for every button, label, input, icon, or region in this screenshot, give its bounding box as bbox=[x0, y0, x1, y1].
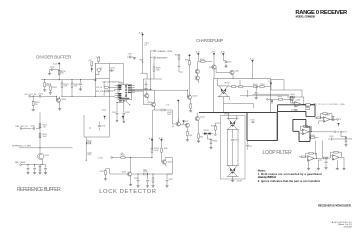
transistor Q5117 bbox=[195, 69, 199, 73]
svg-text:VHL_SD: VHL_SD bbox=[96, 87, 103, 89]
svg-text:R5115: R5115 bbox=[164, 148, 168, 150]
resistor R5133 under Q5113 bbox=[198, 126, 200, 133]
svg-text:1uF: 1uF bbox=[144, 44, 147, 46]
svg-text:DIVIDER BUFFER: DIVIDER BUFFER bbox=[36, 54, 71, 59]
svg-text:Y2: Y2 bbox=[100, 68, 102, 70]
op-amp U5403-A bbox=[308, 156, 315, 162]
svg-text:Notes:: Notes: bbox=[258, 168, 266, 172]
transistor Q5112 bbox=[185, 123, 189, 127]
resistor R5111 bbox=[190, 104, 192, 108]
svg-text:RECEIVER SYNTHESIZER: RECEIVER SYNTHESIZER bbox=[318, 204, 351, 208]
capacitor C5131 bbox=[232, 129, 234, 138]
svg-text:100K: 100K bbox=[156, 70, 160, 72]
resistor R5120 bbox=[201, 61, 205, 63]
svg-text:GD: GD bbox=[125, 96, 127, 98]
resistor R5100 bbox=[58, 70, 60, 74]
svg-text:2/1/2004: 2/1/2004 bbox=[344, 226, 353, 228]
svg-text:C5108: C5108 bbox=[125, 112, 130, 114]
svg-text:CE: CE bbox=[125, 94, 127, 96]
svg-text:B_5V: B_5V bbox=[250, 58, 254, 60]
svg-text:R5117: R5117 bbox=[100, 171, 104, 173]
ground under R5111 bbox=[189, 110, 192, 112]
wire Q5104 collector bbox=[154, 90, 156, 103]
svg-text:R5134: R5134 bbox=[167, 112, 172, 114]
svg-text:C5130: C5130 bbox=[250, 119, 255, 121]
resistor R5122 bbox=[260, 86, 264, 88]
loop filter inner box bbox=[247, 113, 277, 141]
ground under C5163 bbox=[44, 172, 47, 174]
svg-text:R33: R33 bbox=[200, 136, 203, 138]
wire bridge0 rails bbox=[218, 79, 230, 104]
wire A_9V down bbox=[141, 37, 163, 90]
svg-text:C5131: C5131 bbox=[234, 139, 239, 141]
wire buffered 2.1 MHz bbox=[19, 147, 73, 149]
resistor R5107 osc pullup bbox=[98, 57, 100, 61]
wire chargepump output lines bbox=[240, 94, 289, 96]
wire U5403 ground stubs bbox=[309, 157, 344, 168]
transistor Q5103 bbox=[162, 160, 166, 164]
wire Q5103 collector bbox=[165, 158, 172, 166]
wire loop filter column 2 bbox=[322, 140, 324, 158]
ground loop filter 1 bbox=[307, 168, 310, 170]
capacitor C5106 decoupling bbox=[117, 102, 124, 104]
pin stubs left U5400 bbox=[115, 86, 118, 98]
resistor R5160 bbox=[39, 124, 41, 128]
wire U5403B output bbox=[339, 156, 344, 158]
capacitor C5121 bbox=[255, 91, 258, 94]
svg-text:TP: TP bbox=[339, 119, 341, 121]
op-amp U5400 PLL IC body bbox=[118, 84, 131, 99]
capacitor C5162 bbox=[33, 167, 36, 170]
resistor R5148 on guard bbox=[306, 104, 310, 107]
flag CHANNEL_PRES bbox=[150, 50, 156, 52]
capacitor C5103 bbox=[109, 70, 114, 72]
transistor Q5100 bbox=[56, 98, 60, 102]
diode quad CR5111 bbox=[227, 119, 239, 130]
ground under C5106 bbox=[116, 119, 118, 122]
ground under C5116 bbox=[146, 186, 149, 188]
wire Q5103 base bbox=[161, 159, 164, 162]
transistor Q5104 bbox=[151, 103, 155, 107]
wire bridge column right bbox=[237, 129, 239, 165]
resistor R5144 bbox=[332, 116, 334, 120]
power arrow A_5V chargepump left bbox=[197, 53, 199, 56]
capacitor C5163 bbox=[44, 167, 47, 170]
transistor Q5113 bbox=[195, 117, 199, 121]
resistor R5117 bbox=[105, 170, 107, 174]
ground under R5117 bbox=[104, 179, 107, 181]
capacitor C5150 bbox=[325, 161, 328, 164]
capacitor C5160 bbox=[32, 127, 35, 130]
wire U5402A inputs bbox=[299, 132, 303, 134]
wire U5401 output bbox=[301, 103, 315, 105]
transistor Q5116 bbox=[290, 97, 294, 101]
power arrows under IC bbox=[104, 116, 106, 119]
svg-text:U5401: U5401 bbox=[296, 100, 301, 102]
resistor R5108 IC left upper bbox=[104, 87, 108, 89]
resistor R5121 bbox=[253, 86, 257, 88]
wire x86 column bbox=[85, 137, 87, 160]
shield wall bottom bbox=[84, 115, 109, 137]
svg-text:CR5110: CR5110 bbox=[224, 82, 230, 84]
wire Q5111 emitter into box bbox=[232, 75, 234, 79]
power arrow A_9V chargepump mid bbox=[213, 53, 215, 56]
transistor Q5106 bbox=[145, 94, 149, 98]
svg-text:Q8: Q8 bbox=[172, 126, 174, 128]
resistor R5141 feedback bbox=[290, 96, 294, 98]
capacitor C5120 bbox=[225, 61, 228, 64]
svg-text:TO VCO CONTROL LINE: TO VCO CONTROL LINE bbox=[318, 104, 346, 106]
resistor R5113 bbox=[121, 157, 125, 159]
power at input bbox=[271, 101, 273, 104]
capacitor C5105 rail bypass bbox=[80, 80, 82, 84]
guardband thick inner loop bbox=[293, 119, 310, 141]
svg-text:R5140: R5140 bbox=[278, 96, 283, 98]
svg-text:100p: 100p bbox=[87, 154, 91, 156]
svg-text:B_9V: B_9V bbox=[268, 81, 272, 83]
ground under R5102 bbox=[49, 93, 52, 95]
ground under R5105 bbox=[32, 109, 35, 111]
svg-text:R5132: R5132 bbox=[213, 140, 218, 142]
terminal REF_LEVEL bbox=[20, 164, 22, 166]
resistor R5118 bbox=[152, 178, 154, 182]
capacitor C5111 bbox=[98, 125, 101, 128]
resistor R5162 bbox=[39, 166, 41, 170]
ground under R5118 bbox=[151, 186, 154, 188]
svg-text:Q5100: Q5100 bbox=[61, 99, 66, 101]
wire R5107 to crystal can bbox=[98, 62, 100, 64]
svg-text:LOOP FILTER: LOOP FILTER bbox=[263, 150, 293, 156]
resistor R5110 bbox=[189, 61, 191, 65]
shield wall right of lock section bbox=[108, 79, 110, 138]
svg-text:C5101: C5101 bbox=[38, 94, 43, 96]
wire U5402B inputs bbox=[319, 121, 324, 124]
capacitor C5140 bbox=[295, 108, 298, 111]
svg-text:MODEL CRM9228: MODEL CRM9228 bbox=[296, 15, 316, 19]
capacitor C5161 bbox=[27, 167, 30, 170]
svg-text:CHANNEL_PRES: CHANNEL_PRES bbox=[157, 50, 173, 53]
svg-text:C5117: C5117 bbox=[169, 179, 173, 181]
resistor R5150 feedback bbox=[309, 152, 313, 154]
wire U5400 top pin bbox=[123, 83, 127, 84]
svg-text:10.0K: 10.0K bbox=[43, 136, 47, 138]
svg-text:R5122: R5122 bbox=[260, 84, 265, 86]
wire divider input bbox=[30, 95, 56, 97]
svg-text:I_5V: I_5V bbox=[87, 60, 91, 62]
ground under C5162 bbox=[33, 172, 36, 174]
svg-text:R5110: R5110 bbox=[185, 59, 190, 61]
wire diode pair tap bbox=[206, 135, 208, 139]
wire Q5102 emitter ground bbox=[130, 176, 132, 184]
capacitor C5102 bbox=[91, 62, 93, 66]
wire divider output to IC bbox=[62, 95, 115, 97]
svg-text:REFERENCE BUFFER: REFERENCE BUFFER bbox=[17, 187, 61, 193]
resistor R5146 row bbox=[311, 137, 315, 139]
pin name blocks U5400 bbox=[118, 84, 121, 87]
resistor R5102 bbox=[49, 84, 51, 93]
svg-text:C5120: C5120 bbox=[227, 62, 232, 64]
power near U5402B bbox=[338, 123, 340, 126]
svg-text:C5100: C5100 bbox=[50, 66, 55, 68]
wire Q5100 base bbox=[55, 96, 57, 100]
ground under C5115 bbox=[136, 186, 139, 188]
flag TO VCO CONTROL LINE bbox=[313, 103, 316, 105]
node divider rail junctions bbox=[59, 79, 60, 80]
terminal left of bridge bbox=[215, 134, 217, 136]
resistor R5115 bbox=[161, 148, 163, 152]
svg-text:C5115: C5115 bbox=[134, 178, 138, 180]
wire right cluster bbox=[335, 132, 346, 139]
wire U5402A output bbox=[309, 131, 334, 133]
svg-text:R5147: R5147 bbox=[348, 138, 353, 140]
svg-text:REF_LEVEL: REF_LEVEL bbox=[15, 162, 26, 164]
resistor R5119 bbox=[178, 55, 180, 59]
wire Q5101 emitter bbox=[40, 159, 42, 165]
resistor R5125 on bus bbox=[153, 67, 155, 71]
bus U5400 to right bbox=[131, 89, 187, 96]
wire lock detector feed upper bbox=[153, 110, 155, 130]
svg-text:PD: PD bbox=[125, 85, 127, 87]
flag BANDSHIFT bbox=[150, 57, 156, 59]
svg-text:R5120: R5120 bbox=[200, 59, 205, 61]
resistor R5124 bbox=[239, 86, 243, 88]
svg-text:LOCK: LOCK bbox=[98, 157, 104, 159]
resistor R5149 input bbox=[317, 117, 321, 119]
resistor R5116 bbox=[144, 173, 148, 175]
power A_5V lock detector 1 bbox=[151, 139, 153, 142]
svg-text:1.0K: 1.0K bbox=[43, 126, 46, 128]
svg-text:R31: R31 bbox=[189, 135, 192, 137]
wire reference main vertical bbox=[39, 112, 41, 153]
capacitor C5116 bbox=[146, 179, 149, 182]
svg-text:R5142: R5142 bbox=[305, 106, 310, 108]
comps inside guard loop bbox=[305, 108, 309, 110]
svg-text:330: 330 bbox=[61, 73, 64, 75]
resistor R5103 bbox=[61, 80, 63, 97]
svg-text:10.0K: 10.0K bbox=[154, 150, 158, 152]
capacitor C5132 below guard bbox=[247, 140, 249, 144]
terminal right bbox=[337, 119, 339, 121]
transistor Q5102 bbox=[127, 172, 131, 176]
svg-text:CR5113: CR5113 bbox=[204, 130, 210, 132]
svg-text:C5112: C5112 bbox=[144, 43, 149, 45]
wire bridge column left bbox=[227, 129, 229, 165]
transistor Q5111 bbox=[230, 70, 234, 74]
wire Q5113 emitter bbox=[197, 121, 199, 127]
capacitor C5101 bbox=[39, 95, 42, 98]
wire lock detector feed bbox=[152, 130, 154, 151]
svg-text:C_5V: C_5V bbox=[166, 105, 170, 107]
ground loop filter 4 bbox=[336, 168, 339, 170]
wire Q5103 emitter bbox=[164, 164, 166, 166]
svg-text:R5160: R5160 bbox=[43, 125, 48, 127]
diode quad CR5110 bbox=[218, 86, 230, 97]
wire U5400 prog stub bbox=[127, 102, 130, 105]
svg-text:R5119: R5119 bbox=[175, 55, 179, 57]
resistor R5131 bbox=[186, 132, 188, 136]
wire Q5104 base bbox=[144, 96, 152, 104]
chargepump shield box bbox=[214, 79, 271, 113]
ground under Q5100 bbox=[58, 109, 61, 111]
svg-text:U5402: U5402 bbox=[304, 127, 309, 129]
wire lock node bbox=[131, 158, 152, 172]
svg-text:C5109: C5109 bbox=[102, 109, 107, 111]
wire Q5105 base bbox=[186, 90, 188, 97]
wire bridge1 top stubs bbox=[229, 113, 237, 119]
resistor R5143 feedback top bbox=[323, 113, 327, 115]
transistor Q5105 bbox=[187, 95, 191, 99]
feedback network U5401 bbox=[287, 97, 304, 104]
bridge shield box bbox=[221, 116, 246, 180]
svg-text:C5103: C5103 bbox=[110, 68, 115, 70]
wire bridge left feed bbox=[215, 122, 220, 124]
wire divider rail bbox=[41, 79, 95, 81]
wire Q5111 base bbox=[216, 67, 230, 72]
crystal can shield box bbox=[95, 63, 109, 78]
power right column bbox=[270, 83, 272, 86]
wire ref osc input bbox=[22, 128, 40, 130]
wire Q5105 emitter bbox=[190, 99, 192, 104]
diode CR5113 pair bbox=[202, 133, 213, 135]
op-amp U5403-B bbox=[332, 155, 339, 161]
svg-text:C5140: C5140 bbox=[291, 109, 296, 111]
svg-text:Q5111: Q5111 bbox=[235, 71, 239, 73]
wire Q5106 stubs bbox=[144, 91, 148, 100]
svg-text:LOCK DETECTOR: LOCK DETECTOR bbox=[99, 189, 156, 195]
terminal loop filter input bbox=[267, 99, 269, 101]
power feed Q5118 bbox=[177, 100, 179, 103]
svg-text:R5121: R5121 bbox=[253, 84, 258, 86]
svg-text:C5164: C5164 bbox=[87, 152, 92, 154]
svg-text:C5141: C5141 bbox=[329, 136, 334, 138]
resistor R5109 IC left lower bbox=[104, 90, 108, 92]
svg-text:Q5101: Q5101 bbox=[45, 155, 50, 157]
ground bridge bottom bbox=[232, 176, 234, 180]
svg-text:R5100: R5100 bbox=[61, 71, 66, 73]
wire divider supply bbox=[58, 66, 60, 80]
svg-text:R507: R507 bbox=[140, 60, 144, 62]
resistor R5104 bbox=[71, 80, 73, 97]
ground under R5162 bbox=[38, 172, 41, 174]
wire flags bus bbox=[149, 51, 151, 89]
svg-text:10.0K: 10.0K bbox=[167, 114, 171, 116]
transistor Q5110 bbox=[212, 65, 216, 69]
power A_9V top feed bbox=[142, 33, 144, 36]
svg-text:R5104: R5104 bbox=[74, 84, 79, 86]
wire can left rail bbox=[94, 63, 96, 96]
op-amp U5402-A bbox=[302, 129, 309, 135]
svg-text:RL_VOLTS: RL_VOLTS bbox=[337, 132, 347, 134]
svg-text:LD: LD bbox=[125, 89, 127, 91]
capacitor C5130 bbox=[252, 121, 255, 124]
ground loop filter 3 bbox=[324, 167, 327, 169]
capacitor C5113 with ground bbox=[131, 56, 133, 58]
svg-text:R5161: R5161 bbox=[43, 134, 48, 136]
resistor R5152 feedback bbox=[334, 151, 338, 153]
transistor Q5101 bbox=[38, 153, 44, 159]
terminal REF_OSC_IN bbox=[20, 128, 22, 130]
power A_5V lock detector 2 bbox=[161, 139, 163, 142]
wire lock output bbox=[112, 157, 130, 159]
crystal Y5100 bbox=[97, 68, 101, 72]
guardband thick top loop bbox=[278, 105, 315, 117]
wire Q5100 collector bbox=[59, 96, 61, 98]
wire Q5102 collector row bbox=[132, 165, 172, 174]
svg-text:R5125: R5125 bbox=[156, 68, 161, 70]
svg-text:U5402: U5402 bbox=[325, 115, 330, 117]
capacitor C5114 bbox=[178, 65, 181, 68]
resistor R5101 bbox=[44, 80, 46, 90]
capacitor C5100 bbox=[53, 69, 59, 71]
resistor R5140 bbox=[278, 98, 282, 100]
svg-text:R5102: R5102 bbox=[52, 87, 57, 89]
wire U5402B output bbox=[330, 118, 337, 120]
svg-text:2. Ignore indicates that the p: 2. Ignore indicates that the part is not… bbox=[258, 179, 321, 183]
resistor R5161 bbox=[39, 134, 41, 138]
wire U5401 minus input bbox=[292, 97, 295, 103]
power B_5V above box bbox=[252, 60, 254, 63]
guardband thick vertical mid bbox=[246, 113, 248, 141]
svg-text:driven by U5400-14.: driven by U5400-14. bbox=[258, 175, 277, 179]
svg-text:Q5102: Q5102 bbox=[122, 171, 127, 173]
terminal LOCK bbox=[111, 157, 113, 159]
wire Q5110 emitter into box bbox=[213, 69, 215, 79]
guardband thick horizontal main bbox=[199, 112, 277, 114]
pin stubs bottom U5400 bbox=[120, 100, 127, 104]
resistor R5105 input bias bbox=[32, 96, 34, 109]
svg-text:R5103: R5103 bbox=[64, 84, 69, 86]
svg-text:Q5110: Q5110 bbox=[209, 67, 214, 69]
svg-text:R5130: R5130 bbox=[211, 125, 216, 127]
wire U5403A output bbox=[314, 157, 322, 159]
wire box to right section bbox=[271, 80, 303, 98]
svg-text:GND VSS: GND VSS bbox=[119, 100, 126, 102]
svg-text:B_9V: B_9V bbox=[221, 52, 225, 54]
resistor R5151 input bbox=[301, 156, 305, 158]
svg-text:R5105: R5105 bbox=[35, 102, 40, 104]
svg-text:Q5103: Q5103 bbox=[167, 161, 172, 163]
guardband thick bottom left bbox=[247, 105, 278, 141]
ground near C5113 bbox=[133, 58, 136, 60]
ground under R5101 bbox=[43, 90, 46, 92]
wire R5110 up bbox=[189, 57, 191, 60]
svg-text:CR5112: CR5112 bbox=[237, 180, 243, 182]
capacitor C5117 bbox=[166, 179, 169, 182]
wire to R5140 bbox=[268, 98, 278, 100]
svg-text:CHARGEPUMP: CHARGEPUMP bbox=[196, 38, 223, 43]
flag RL_VOLTS bbox=[334, 131, 337, 133]
svg-text:R5163: R5163 bbox=[87, 140, 92, 142]
wire R5110 to Q5105 bbox=[189, 65, 191, 95]
svg-text:4.7uF: 4.7uF bbox=[128, 53, 132, 55]
power A_5V divider buffer bbox=[58, 62, 60, 65]
svg-text:Q5113: Q5113 bbox=[200, 116, 205, 118]
wire bridge0 internals bbox=[224, 80, 254, 113]
op-amp U5402-B bbox=[323, 117, 330, 123]
resistor R5123 bbox=[232, 86, 236, 88]
capacitor C5108 bbox=[123, 112, 126, 115]
svg-text:PV: PV bbox=[125, 87, 127, 89]
ground under R5132 bbox=[209, 147, 212, 149]
resistor R5163 bbox=[87, 142, 91, 144]
svg-text:100K: 100K bbox=[143, 170, 147, 172]
ground under C5161 bbox=[26, 172, 29, 174]
svg-text:C5111: C5111 bbox=[101, 126, 105, 128]
svg-text:BUFFERED_2.1_MHZ: BUFFERED_2.1_MHZ bbox=[12, 146, 32, 148]
capacitor C5141 bbox=[330, 138, 333, 141]
wire Q5113 collector to guard bbox=[196, 113, 198, 117]
resistor R5153 between bbox=[323, 157, 327, 159]
